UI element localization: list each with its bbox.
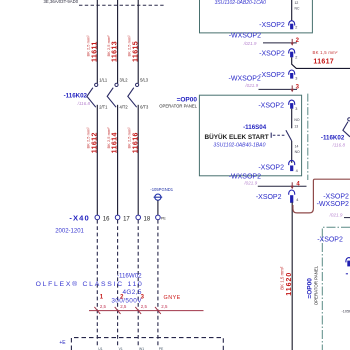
svg-text:BK 1,5 mm²: BK 1,5 mm²	[280, 266, 285, 290]
svg-text:6/T3: 6/T3	[140, 104, 149, 109]
contactor Q pole 3	[128, 83, 139, 107]
wire label 11613	[106, 35, 119, 62]
svg-text:3: 3	[295, 77, 297, 81]
wire to switch	[291, 109, 293, 129]
svg-text:-XSOP2: -XSOP2	[258, 165, 284, 172]
wire L2 lower	[117, 105, 119, 215]
connector -XSOP2 pin 3 (socket)	[258, 100, 297, 111]
interruption arrow 2	[263, 38, 300, 46]
svg-text:18: 18	[144, 216, 151, 222]
connector -XSOP2 pin 3 (plug)	[259, 70, 297, 81]
aux contact -116K02 (right edge)	[343, 118, 350, 137]
svg-text:3SU1102-0AB20-1CA0: 3SU1102-0AB20-1CA0	[215, 0, 267, 6]
svg-text:NO: NO	[295, 150, 300, 154]
svg-text:16: 16	[103, 216, 110, 222]
terminal 18	[136, 215, 151, 222]
svg-text:/021.9: /021.9	[244, 83, 258, 88]
wire label 11614	[106, 127, 119, 154]
mechanical link dashed (top)	[79, 4, 165, 6]
svg-text:11620: 11620	[286, 272, 293, 296]
terminal 16	[95, 215, 110, 222]
svg-text:11612: 11612	[91, 132, 98, 153]
svg-text:4: 4	[296, 169, 298, 173]
svg-text:11615: 11615	[132, 41, 139, 62]
terminal 17	[115, 215, 130, 222]
svg-text:-XSOP2: -XSOP2	[258, 102, 284, 109]
svg-text:-X40: -X40	[69, 213, 89, 222]
svg-text:/116.8: /116.8	[332, 142, 346, 147]
wire 11617 to edge	[292, 57, 350, 68]
svg-text:12: 12	[295, 1, 299, 5]
wire label 11615	[127, 35, 140, 62]
wire stub right edge	[344, 217, 350, 219]
svg-text:-XSOP2: -XSOP2	[259, 72, 285, 79]
cable tick 1	[94, 307, 100, 314]
wire L3 lower	[137, 105, 139, 215]
svg-text:1/L1: 1/L1	[99, 77, 108, 82]
svg-text:/021.9: /021.9	[243, 41, 257, 46]
svg-text:17: 17	[123, 216, 130, 222]
svg-text:2002-1201: 2002-1201	[55, 228, 84, 234]
svg-text:11613: 11613	[112, 41, 119, 62]
svg-text:-105PGND1: -105PGND1	[150, 187, 173, 192]
wire from switch	[291, 141, 293, 163]
svg-text:3/L2: 3/L2	[120, 77, 129, 82]
svg-text:-XSOP2: -XSOP2	[259, 51, 285, 58]
svg-text:2/T1: 2/T1	[99, 104, 108, 109]
mechanical link dashes	[273, 134, 286, 136]
cable tick 3	[135, 307, 141, 314]
svg-text:300/500V: 300/500V	[111, 297, 142, 304]
wire L3 upper	[137, 0, 139, 83]
svg-text:PE: PE	[161, 216, 166, 220]
cable tick 2	[115, 307, 121, 314]
svg-text:-XSOP2: -XSOP2	[323, 193, 349, 200]
connector -XSOP2 pin 4 (socket)	[258, 160, 297, 173]
wire L1 upper	[96, 0, 98, 83]
svg-text:+E: +E	[59, 340, 66, 346]
contactor Q pole 2	[107, 83, 118, 107]
connector -XSOP2 pin 4 (plug)	[256, 190, 299, 203]
wire label 11616	[127, 127, 140, 154]
svg-text:11611: 11611	[91, 41, 98, 62]
wire L2 upper	[117, 0, 119, 83]
connector -XSOP2 pin 2 (plug)	[259, 49, 297, 60]
actuator bar	[270, 133, 272, 138]
interruption arrow 3	[259, 84, 300, 92]
svg-text:-XSOP2: -XSOP2	[256, 194, 282, 201]
svg-text:OLFLEX® CLASSIC 110: OLFLEX® CLASSIC 110	[36, 280, 144, 288]
svg-text:-116S04: -116S04	[243, 124, 267, 131]
svg-text:4: 4	[296, 198, 298, 202]
panel box 2 (BUYUK ELEK START)	[199, 95, 301, 176]
svg-text:/021.9: /021.9	[329, 213, 343, 218]
svg-text:OPERATOR PANEL: OPERATOR PANEL	[313, 265, 318, 305]
svg-text:2: 2	[295, 55, 297, 59]
svg-text:4G2,5: 4G2,5	[122, 289, 141, 296]
svg-text:BK 1,5 mm²: BK 1,5 mm²	[313, 50, 339, 55]
cable definition line	[89, 310, 204, 312]
connector -XSOP2 pin 2 (socket)	[259, 21, 297, 30]
wire label 11611	[86, 35, 99, 62]
svg-text:BK 2,5 mm²: BK 2,5 mm²	[127, 127, 132, 149]
svg-text:11617: 11617	[313, 59, 334, 66]
svg-text:3E,36A/03T-9AD0: 3E,36A/03T-9AD0	[44, 0, 79, 4]
svg-text:5/L3: 5/L3	[140, 77, 149, 82]
svg-text:GNYE: GNYE	[164, 295, 181, 301]
svg-text:BÜYÜK ELEK START: BÜYÜK ELEK START	[205, 132, 269, 141]
svg-text:2,5: 2,5	[100, 304, 107, 309]
svg-text:=OP00: =OP00	[177, 96, 198, 103]
svg-text:/021.9: /021.9	[243, 180, 257, 185]
svg-text:14: 14	[295, 145, 299, 149]
svg-text:-WXSOP2: -WXSOP2	[317, 201, 349, 208]
structure boundary dash-dot (lower, box corner)	[322, 227, 350, 350]
wire 2 dashed	[117, 220, 119, 345]
svg-text:-XSOP2: -XSOP2	[317, 236, 343, 243]
svg-text:BK 2,5 mm²: BK 2,5 mm²	[127, 35, 132, 57]
panel box 1 (pushbutton, cut at top)	[200, 0, 313, 33]
svg-text:BK 2,5 mm²: BK 2,5 mm²	[106, 35, 111, 57]
svg-text:-WXSOP2: -WXSOP2	[229, 75, 261, 82]
wire label 11612	[86, 127, 99, 154]
svg-text:-116K02: -116K02	[64, 93, 88, 100]
svg-text:/116.8: /116.8	[77, 101, 91, 106]
svg-text:3SU1102-0AB40-1BA0: 3SU1102-0AB40-1BA0	[213, 143, 265, 149]
svg-text:OPERATOR PANEL: OPERATOR PANEL	[159, 104, 197, 109]
svg-text:3: 3	[295, 107, 297, 111]
wire L1 lower	[96, 105, 98, 215]
svg-text:13: 13	[294, 124, 298, 128]
wire (maroon) to right edge	[293, 179, 350, 213]
svg-text:-116K02: -116K02	[321, 135, 345, 142]
svg-text:2,5: 2,5	[141, 304, 148, 309]
svg-text:2,5: 2,5	[120, 304, 127, 309]
wire 3 dashed	[137, 220, 139, 345]
svg-text:BK 2,5 mm²: BK 2,5 mm²	[86, 127, 91, 149]
contactor Q pole 1	[87, 83, 98, 107]
wire down 11620	[291, 202, 293, 350]
connector at right edge (partial)	[346, 258, 350, 274]
svg-text:-105PG: -105PG	[342, 309, 350, 313]
svg-text:2,5: 2,5	[161, 304, 168, 309]
interruption arrow 4	[258, 182, 307, 190]
terminal PE	[156, 215, 167, 220]
structure boundary dash-dot (upper)	[307, 94, 309, 180]
svg-text:BK 2,5 mm²: BK 2,5 mm²	[106, 127, 111, 149]
svg-text:NO: NO	[294, 118, 299, 122]
svg-text:NC: NC	[295, 6, 300, 10]
svg-text:11614: 11614	[112, 132, 119, 153]
svg-text:-XSOP2: -XSOP2	[259, 22, 285, 29]
wire 1 dashed (to field)	[96, 220, 98, 345]
svg-text:-116W02: -116W02	[117, 273, 142, 280]
wire PE dashed	[157, 220, 159, 345]
svg-text:BK 2,5 mm²: BK 2,5 mm²	[86, 35, 91, 57]
svg-text:11616: 11616	[132, 132, 139, 153]
svg-text:-WXSOP2: -WXSOP2	[229, 32, 261, 39]
wire PE	[157, 200, 159, 215]
ground PE symbol	[154, 194, 163, 200]
svg-text:4/T2: 4/T2	[120, 104, 129, 109]
pushbutton contact lever	[286, 130, 292, 141]
cable tick PE	[155, 307, 161, 314]
svg-text:2: 2	[295, 25, 297, 29]
wire (NC contact tail)	[291, 0, 293, 21]
enclosure dashed box	[71, 338, 223, 350]
